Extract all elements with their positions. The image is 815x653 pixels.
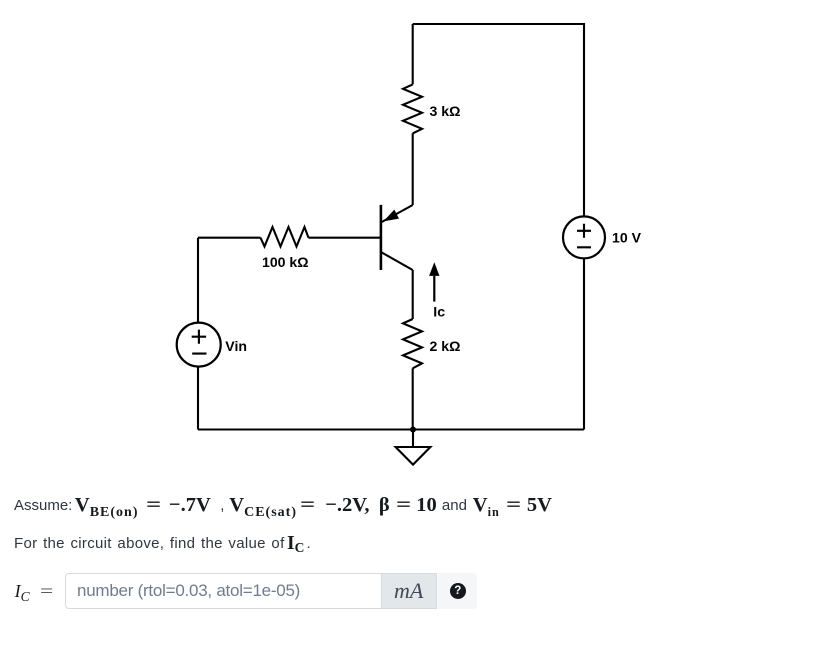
svg-text:Vin: Vin xyxy=(225,338,247,354)
svg-text:10 V: 10 V xyxy=(612,230,642,246)
svg-text:2 kΩ: 2 kΩ xyxy=(430,338,461,354)
svg-text:3 kΩ: 3 kΩ xyxy=(430,103,461,119)
svg-text:100 kΩ: 100 kΩ xyxy=(262,254,309,270)
svg-text:Ic: Ic xyxy=(433,304,445,320)
